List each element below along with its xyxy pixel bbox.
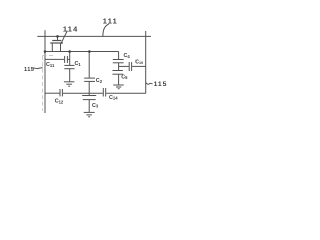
svg-text:C12: C12 (55, 99, 64, 105)
svg-text:C5: C5 (121, 74, 128, 80)
svg-text:115: 115 (24, 67, 34, 73)
svg-text:114: 114 (63, 24, 79, 33)
svg-text:115: 115 (154, 81, 168, 88)
svg-text:C11: C11 (46, 62, 55, 68)
svg-text:C1: C1 (75, 61, 82, 67)
svg-text:C3: C3 (92, 103, 99, 109)
svg-text:C2: C2 (96, 78, 103, 84)
svg-text:C14: C14 (109, 95, 118, 101)
svg-text:C4: C4 (124, 53, 131, 59)
svg-text:111: 111 (103, 16, 118, 25)
svg-text:C10: C10 (135, 59, 143, 65)
